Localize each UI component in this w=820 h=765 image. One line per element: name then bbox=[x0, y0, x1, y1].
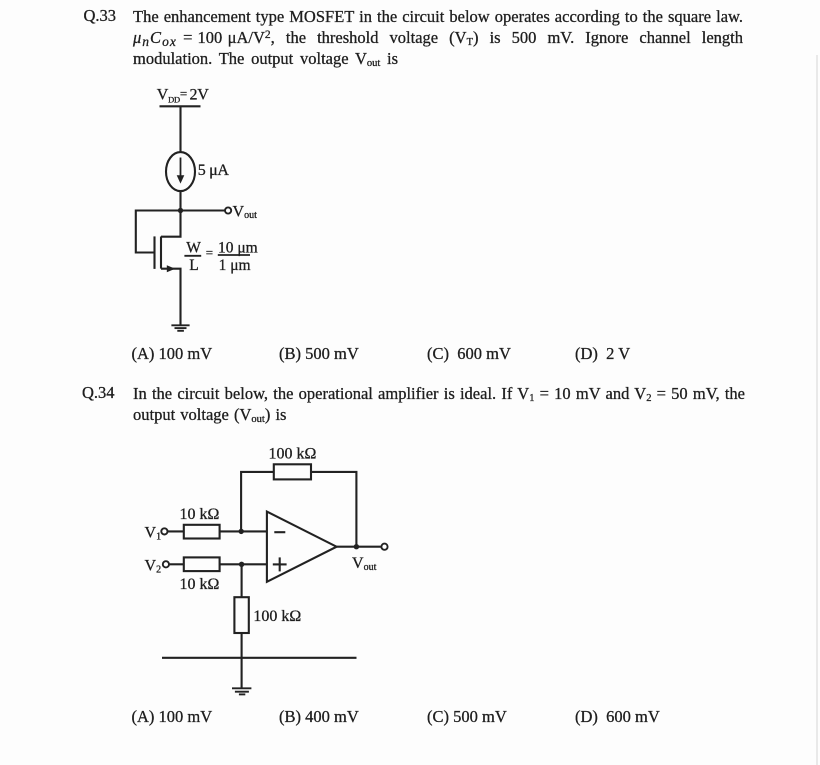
svg-text:1 μm: 1 μm bbox=[219, 257, 251, 274]
svg-text:W: W bbox=[186, 239, 201, 256]
svg-text:10 kΩ: 10 kΩ bbox=[180, 506, 220, 523]
page edge artifact line bbox=[816, 55, 818, 765]
resistor R1 10k box bbox=[184, 525, 220, 539]
current source arrowhead bbox=[177, 175, 185, 183]
svg-text:10 μm: 10 μm bbox=[218, 239, 258, 256]
wire R1 to inverting input bbox=[220, 530, 267, 532]
current source arrow bbox=[180, 158, 182, 177]
circuit 1: diode-connected MOSFET with current source bbox=[125, 84, 275, 336]
ground bbox=[171, 325, 189, 331]
node inverting junction dot bbox=[239, 529, 244, 534]
input terminal V1 circle bbox=[161, 528, 167, 534]
svg-text:Vout: Vout bbox=[352, 555, 377, 573]
wire feedback left bbox=[241, 472, 274, 532]
wire RG to ground bbox=[241, 633, 243, 688]
input terminal V2 circle bbox=[163, 561, 169, 567]
svg-text:Vout: Vout bbox=[233, 203, 258, 221]
transistor M1 gate bar bbox=[153, 236, 155, 269]
Q.33 paragraph bbox=[133, 6, 743, 70]
svg-text:5 μA: 5 μA bbox=[198, 162, 230, 179]
wire source lead to ground bbox=[161, 269, 181, 325]
Q.34 label bbox=[82, 383, 115, 403]
wire current source to node Vout bbox=[179, 191, 181, 210]
wire feedback right bbox=[311, 472, 356, 547]
svg-text:100 kΩ: 100 kΩ bbox=[253, 608, 301, 625]
op-amp minus sign bbox=[274, 531, 285, 533]
transistor M1 channel bar bbox=[160, 237, 162, 269]
wire gate feedback loop bbox=[136, 211, 181, 253]
wire drain lead bbox=[161, 211, 181, 237]
wire node to output terminal bbox=[181, 209, 225, 211]
svg-text:L: L bbox=[189, 257, 198, 274]
resistor RF 100k box bbox=[274, 464, 311, 479]
resistor RG 100k box (vertical) bbox=[234, 597, 248, 633]
circuit 2: inverting/summing op-amp bbox=[135, 438, 395, 700]
wire V2 to R2 bbox=[169, 563, 184, 565]
svg-text:10 kΩ: 10 kΩ bbox=[180, 576, 220, 593]
node output junction dot bbox=[354, 544, 359, 549]
label W/L = 10um/1um bbox=[186, 239, 257, 274]
svg-text:=: = bbox=[206, 245, 213, 260]
svg-text:V2: V2 bbox=[145, 557, 162, 575]
output terminal circle bbox=[225, 207, 231, 213]
op-amp plus sign bbox=[273, 563, 287, 565]
svg-text:100 kΩ: 100 kΩ bbox=[269, 445, 317, 462]
resistor R2 10k box bbox=[184, 557, 220, 571]
ground rail bbox=[162, 657, 357, 659]
wire VDD to current source bbox=[179, 106, 181, 152]
Q.33 label bbox=[84, 6, 117, 26]
Q.34 paragraph bbox=[133, 383, 745, 426]
wire node B to RG bbox=[241, 564, 243, 597]
node non-inverting junction dot bbox=[239, 562, 244, 567]
svg-text:VDD= 2V: VDD= 2V bbox=[157, 86, 209, 105]
options row Q.34 bbox=[132, 707, 213, 727]
fraction bar W/L bbox=[184, 255, 201, 257]
svg-text:V1: V1 bbox=[145, 525, 162, 543]
output terminal circle bbox=[381, 544, 387, 550]
fraction bar 10um/1um bbox=[218, 254, 250, 256]
node A junction dot bbox=[178, 208, 183, 213]
options row Q.33 bbox=[132, 344, 213, 364]
wire V1 to R1 bbox=[168, 530, 184, 532]
VDD supply bar bbox=[160, 105, 201, 107]
ground bbox=[232, 688, 251, 694]
current source I1 5uA bbox=[166, 152, 195, 191]
wire R2 to non-inverting input bbox=[220, 563, 267, 565]
wire op-amp output bbox=[337, 546, 382, 548]
transistor source arrowhead bbox=[167, 265, 175, 272]
op-amp U1 triangle bbox=[267, 512, 337, 582]
